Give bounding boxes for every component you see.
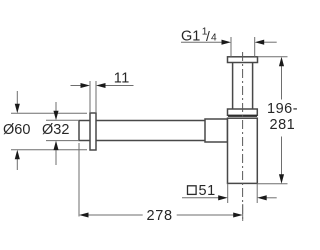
inlet compression nut [205, 119, 228, 142]
svg-text:51: 51 [199, 183, 216, 199]
extension line right (body axis extended down) [242, 204, 244, 221]
extension line left (body left edge extended) [227, 184, 229, 204]
extension line bottom [11, 149, 87, 151]
svg-text:4: 4 [211, 33, 217, 44]
dimension Ø32 (pipe diameter) [46, 102, 78, 165]
dimension line lower segment [281, 137, 283, 176]
centerline (vertical axis of trap body) [242, 52, 244, 221]
dimension line left [71, 85, 82, 87]
svg-text:196-: 196- [267, 101, 298, 117]
arrow right-pointing at left ext line [222, 40, 232, 45]
dimension line right segment [177, 214, 235, 216]
arrow left-pointing at flange right [96, 83, 106, 88]
arrow right-pointing at body axis [233, 212, 243, 217]
arrow down-pointing at pipe top [53, 111, 58, 121]
arrow down-pointing at bottom [279, 174, 284, 184]
extension line left [89, 81, 91, 113]
arrow down-pointing at flange top [15, 104, 20, 114]
dimension line above [55, 102, 57, 112]
dimension line upper segment [281, 66, 283, 100]
dimension 278 (overall length) [79, 143, 243, 221]
svg-text:Ø60: Ø60 [3, 122, 30, 138]
dimension line left segment [88, 214, 143, 216]
dimension line left with arrow [182, 197, 219, 199]
arrow left-pointing at right ext line [255, 40, 265, 45]
inlet pipe (horizontal Ø32 tube) [96, 121, 205, 141]
wall flange (Ø60 escutcheon, side view) [90, 113, 96, 150]
arrow left-pointing at left end [79, 212, 89, 217]
arrow right-pointing at body left [218, 195, 228, 200]
arrow up-pointing at top [279, 57, 284, 66]
arrow up-pointing at flange bottom [15, 150, 20, 160]
arrow up-pointing at pipe bottom [53, 141, 58, 151]
extension line top [11, 112, 87, 114]
extension line top [46, 119, 78, 121]
top flange nut (G 1 1/4 union) [228, 57, 258, 63]
extension line bottom (from body bottom) [258, 183, 288, 185]
dimension line right with arrow [264, 41, 277, 43]
extension line top (from flange top) [258, 56, 288, 58]
extension line left of thread [230, 37, 232, 57]
dimension line below [55, 150, 57, 166]
svg-text:Ø32: Ø32 [42, 122, 69, 138]
trap body (square section cup) [228, 118, 258, 183]
body top collar nut [228, 109, 258, 115]
riser pipe (vertical tube to basin) [233, 63, 253, 110]
dimension line below [16, 159, 18, 171]
collar shadow line [228, 115, 257, 117]
dimension Ø60 (flange diameter) [11, 91, 87, 170]
dimension G1 1/4 [181, 37, 277, 57]
svg-text:/: / [206, 29, 210, 44]
dimension line right with arrow [266, 197, 277, 199]
dimension line above [16, 91, 18, 105]
inlet pipe stub (wall side, left of flange) [79, 121, 90, 141]
dimension 196-281 (height range) [258, 57, 288, 184]
dimension line right [105, 85, 134, 87]
svg-text:G1: G1 [181, 29, 200, 45]
svg-text:281: 281 [270, 117, 296, 133]
svg-text:278: 278 [147, 208, 173, 224]
leader/dimension line left with arrow [181, 41, 223, 43]
arrow left-pointing at body right [257, 195, 267, 200]
svg-text:11: 11 [114, 71, 130, 87]
extension line right (body right edge extended) [256, 184, 258, 204]
square symbol of label [188, 186, 197, 195]
extension line right [95, 81, 97, 113]
dimension square 51 (body width) [182, 184, 277, 204]
dimension 11 (flange thickness) [71, 81, 134, 113]
extension line left (pipe end extended down) [78, 143, 80, 217]
extension line bottom [46, 140, 78, 142]
arrow right-pointing at flange left [81, 83, 91, 88]
extension line right of thread [254, 37, 256, 57]
